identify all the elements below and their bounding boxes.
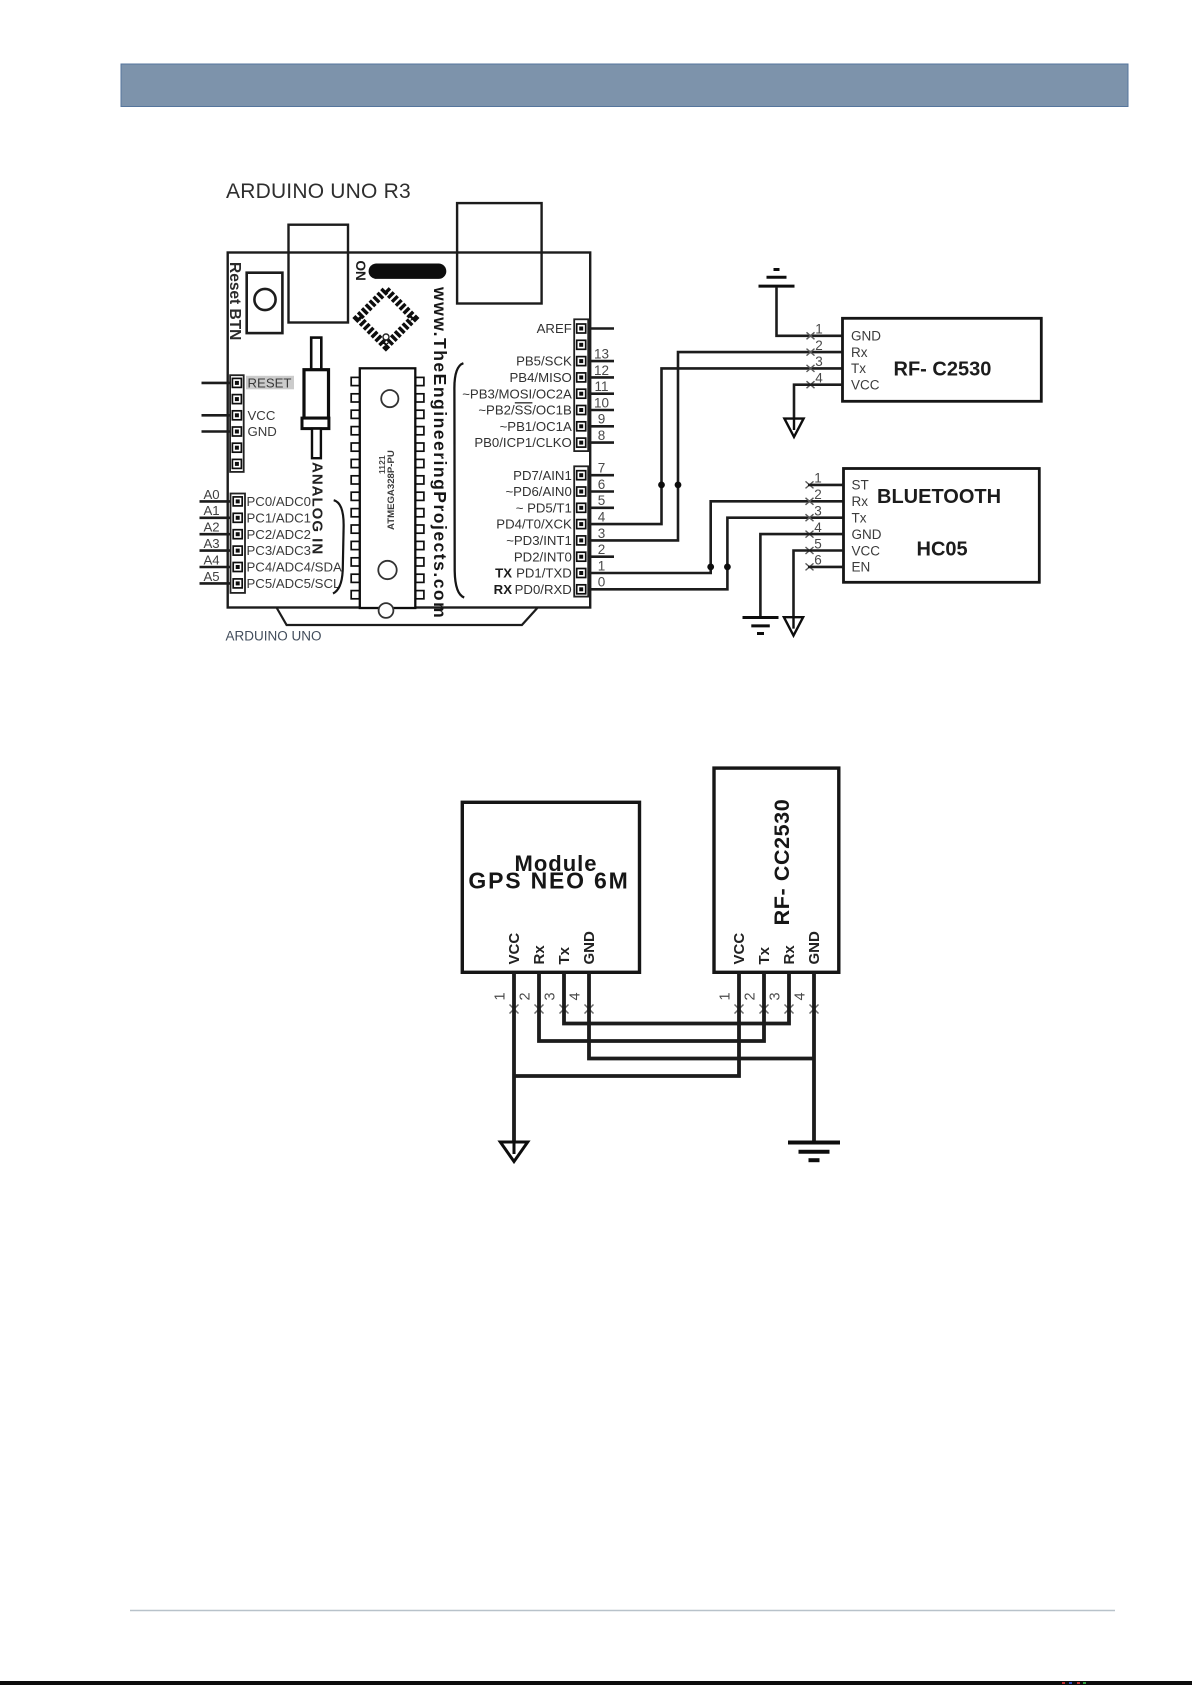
- arduino board outline U1: [228, 253, 591, 608]
- ground (BT GND): [743, 618, 779, 634]
- wire VCC: [202, 414, 231, 417]
- svg-text:Reset BTN: Reset BTN: [226, 262, 243, 340]
- svg-text:4: 4: [814, 520, 822, 535]
- wire stub: [588, 555, 614, 558]
- svg-text:Rx: Rx: [851, 345, 868, 360]
- ground (RF-CC2530 GND): [788, 1143, 840, 1161]
- svg-text:ATMEGA328P-PU: ATMEGA328P-PU: [386, 450, 397, 530]
- brace digital group: [454, 363, 464, 597]
- svg-text:HC05: HC05: [917, 539, 968, 561]
- svg-text:1: 1: [718, 992, 734, 1000]
- wire A2: [200, 533, 231, 536]
- bottom bar pixels: [1062, 1682, 1086, 1684]
- svg-text:GPS NEO 6M: GPS NEO 6M: [468, 868, 629, 894]
- reset button S1: [247, 273, 283, 333]
- analog header J2: [231, 494, 246, 593]
- wire VCC net: [514, 973, 739, 1077]
- wire GND net: [589, 973, 814, 1059]
- svg-text:1: 1: [493, 992, 509, 1000]
- wire GPS Rx to RF Tx: [539, 973, 764, 1042]
- wire TX to BT Rx: [588, 501, 843, 573]
- svg-text:ANALOG IN: ANALOG IN: [309, 462, 326, 555]
- svg-text:Tx: Tx: [851, 361, 866, 376]
- wire GPS VCC down: [512, 973, 516, 1143]
- label RESET: [246, 376, 294, 391]
- wire PD4 to RF Tx: [588, 368, 842, 524]
- VCC arrow (GPS): [500, 1142, 527, 1162]
- wire RX to BT Tx: [588, 518, 843, 590]
- svg-text:AREF: AREF: [537, 321, 572, 336]
- svg-text:13: 13: [594, 347, 609, 362]
- RF2 pin x-mark: [760, 1005, 769, 1014]
- svg-text:PD0/RXD: PD0/RXD: [515, 582, 572, 597]
- svg-text:PC0/ADC0: PC0/ADC0: [247, 494, 312, 509]
- svg-text:VCC: VCC: [851, 378, 880, 393]
- svg-text:PD2/INT0: PD2/INT0: [514, 549, 572, 564]
- LED bar: [369, 264, 447, 279]
- bottom bar: [0, 1681, 1192, 1685]
- svg-text:6: 6: [598, 477, 606, 492]
- junction dot: [675, 482, 682, 489]
- GPS pin x-mark: [585, 1005, 594, 1014]
- module RF-CC2530: [714, 768, 839, 972]
- wire BT GND to ground: [760, 534, 843, 616]
- wire stub: [588, 392, 614, 395]
- wire BT ST stub: [808, 484, 844, 487]
- svg-text:Rx: Rx: [852, 494, 869, 509]
- svg-text:RF- CC2530: RF- CC2530: [770, 799, 794, 926]
- svg-text:GND: GND: [248, 424, 277, 439]
- wire BT EN stub: [808, 566, 844, 569]
- svg-text:4: 4: [568, 992, 584, 1000]
- wire A4: [200, 566, 231, 569]
- svg-text:4: 4: [598, 510, 606, 525]
- svg-text:2: 2: [598, 542, 606, 557]
- svg-text:BLUETOOTH: BLUETOOTH: [877, 486, 1001, 508]
- RF2 pin x-mark: [810, 1005, 819, 1014]
- svg-text:A0: A0: [204, 487, 220, 502]
- wire PD3 to RF Rx: [588, 352, 842, 540]
- svg-text:5: 5: [598, 493, 606, 508]
- svg-text:TX: TX: [495, 566, 512, 581]
- svg-text:ST: ST: [852, 478, 869, 493]
- RF pin x-mark: [807, 332, 815, 339]
- header bar: [121, 64, 1128, 107]
- svg-text:1: 1: [814, 471, 822, 486]
- svg-text:4: 4: [815, 371, 823, 386]
- svg-text:GND: GND: [852, 527, 882, 542]
- power header J1: [230, 375, 244, 472]
- wire stub: [588, 409, 614, 412]
- svg-text:PB4/MISO: PB4/MISO: [510, 370, 572, 385]
- svg-text:EN: EN: [852, 560, 871, 575]
- svg-text:0: 0: [598, 575, 606, 590]
- svg-text:A4: A4: [204, 552, 220, 567]
- svg-text:PB5/SCK: PB5/SCK: [516, 354, 572, 369]
- svg-text:Tx: Tx: [852, 511, 867, 526]
- GPS pin x-mark: [560, 1005, 569, 1014]
- svg-text:www.TheEngineeringProjects.com: www.TheEngineeringProjects.com: [430, 286, 450, 619]
- footer rule: [130, 1610, 1115, 1612]
- svg-text:PD7/AIN1: PD7/AIN1: [513, 468, 572, 483]
- wire stub: [588, 474, 614, 477]
- svg-text:~PB1/OC1A: ~PB1/OC1A: [500, 419, 572, 434]
- module RF-C2530: [843, 318, 1042, 401]
- svg-text:10: 10: [594, 395, 609, 410]
- power connector: [457, 203, 541, 303]
- svg-text:2: 2: [815, 338, 823, 353]
- svg-text:~PD3/INT1: ~PD3/INT1: [506, 533, 572, 548]
- BT pin x-mark: [806, 547, 814, 554]
- svg-text:2: 2: [743, 992, 759, 1000]
- svg-text:VCC: VCC: [731, 933, 748, 965]
- svg-text:3: 3: [598, 526, 606, 541]
- board bottom trapezoid: [277, 608, 538, 625]
- svg-text:8: 8: [598, 428, 606, 443]
- svg-text:GND: GND: [806, 931, 823, 965]
- svg-text:1: 1: [815, 322, 823, 337]
- VCC arrow (RF): [784, 419, 803, 437]
- svg-text:3: 3: [768, 992, 784, 1000]
- svg-text:~PB3/MOSI/OC2A: ~PB3/MOSI/OC2A: [462, 386, 572, 401]
- wire stub: [588, 376, 614, 379]
- svg-text:PC5/ADC5/SCL: PC5/ADC5/SCL: [247, 576, 341, 591]
- svg-text:PC3/ADC3: PC3/ADC3: [247, 543, 312, 558]
- module BLUETOOTH HC05: [844, 469, 1040, 583]
- svg-text:ON: ON: [353, 261, 368, 281]
- VCC arrow (BT): [784, 617, 803, 635]
- svg-text:6: 6: [814, 553, 822, 568]
- svg-text:PC1/ADC1: PC1/ADC1: [247, 510, 312, 525]
- junction dot: [707, 564, 714, 571]
- svg-text:5: 5: [814, 536, 822, 551]
- svg-text:Tx: Tx: [756, 946, 773, 964]
- junction dot: [658, 482, 665, 489]
- svg-text:A1: A1: [204, 503, 220, 518]
- svg-text:4: 4: [793, 992, 809, 1000]
- wire stub: [588, 490, 614, 493]
- GPS pin x-mark: [510, 1005, 519, 1014]
- svg-text:A2: A2: [204, 520, 220, 535]
- wire RF VCC to arrow: [794, 385, 843, 419]
- wire A1: [200, 516, 231, 519]
- svg-text:1: 1: [598, 558, 606, 573]
- wire RESET: [202, 382, 231, 385]
- svg-text:VCC: VCC: [248, 408, 276, 423]
- svg-text:2: 2: [518, 992, 534, 1000]
- RF2 pin x-mark: [785, 1005, 794, 1014]
- svg-text:ARDUINO UNO: ARDUINO UNO: [226, 629, 322, 644]
- svg-text:7: 7: [598, 461, 606, 476]
- GPS pin x-mark: [535, 1005, 544, 1014]
- wire RF GND down: [812, 973, 816, 1142]
- BT pin x-mark: [806, 514, 814, 521]
- overline SS: [515, 402, 533, 404]
- digital header J4 (bottom): [574, 466, 588, 596]
- wire stub: [588, 360, 614, 363]
- svg-text:Rx: Rx: [531, 945, 548, 965]
- svg-text:Tx: Tx: [556, 946, 573, 964]
- svg-text:RF- C2530: RF- C2530: [894, 358, 992, 380]
- svg-text:3: 3: [543, 992, 559, 1000]
- junction dot: [724, 564, 731, 571]
- svg-text:~PB2/SS/OC1B: ~PB2/SS/OC1B: [478, 403, 572, 418]
- svg-text:2: 2: [814, 487, 822, 502]
- wire GND: [202, 430, 231, 433]
- svg-text:VCC: VCC: [506, 933, 523, 965]
- wire stub: [588, 327, 614, 330]
- RF pin x-mark: [807, 365, 815, 372]
- svg-text:A3: A3: [204, 536, 220, 551]
- RF pin x-mark: [807, 349, 815, 356]
- svg-text:GND: GND: [581, 931, 598, 965]
- svg-text:PC2/ADC2: PC2/ADC2: [247, 527, 312, 542]
- resistor R1: [302, 338, 329, 459]
- svg-text:A5: A5: [204, 569, 220, 584]
- module GPS NEO 6M: [462, 802, 639, 972]
- USB connector: [289, 225, 349, 323]
- svg-text:GND: GND: [851, 329, 881, 344]
- svg-text:PC4/ADC4/SDA: PC4/ADC4/SDA: [247, 560, 342, 575]
- wire A5: [200, 582, 231, 585]
- svg-text:9: 9: [598, 412, 606, 427]
- IC ATMEGA328P-PU U2: [351, 368, 424, 618]
- digital header J3 (top): [574, 319, 588, 451]
- svg-text:~ PD5/T1: ~ PD5/T1: [516, 500, 572, 515]
- wire stub: [588, 425, 614, 428]
- wire A0: [200, 500, 231, 503]
- BT pin x-mark: [806, 531, 814, 538]
- svg-text:3: 3: [814, 504, 822, 519]
- svg-text:12: 12: [594, 363, 609, 378]
- svg-text:Rx: Rx: [781, 945, 798, 965]
- svg-text:3: 3: [815, 354, 823, 369]
- svg-text:RESET: RESET: [248, 376, 292, 391]
- svg-text:RX: RX: [494, 582, 513, 597]
- brace analog group: [333, 500, 344, 593]
- ground (RF GND): [759, 270, 795, 287]
- wire ground to RF GND: [777, 287, 843, 336]
- QFP chip (diamond): [358, 290, 414, 346]
- svg-text:~PD6/AIN0: ~PD6/AIN0: [505, 484, 571, 499]
- BT pin x-mark: [806, 498, 814, 505]
- RF pin x-mark: [807, 381, 815, 388]
- BT pin x-mark: [806, 481, 814, 488]
- svg-text:PD1/TXD: PD1/TXD: [516, 566, 572, 581]
- svg-text:VCC: VCC: [852, 543, 881, 558]
- RF2 pin x-mark: [735, 1005, 744, 1014]
- wire A3: [200, 549, 231, 552]
- BT pin x-mark: [806, 563, 814, 570]
- wire stub: [588, 506, 614, 509]
- svg-text:ARDUINO UNO R3: ARDUINO UNO R3: [226, 180, 411, 203]
- svg-text:PD4/T0/XCK: PD4/T0/XCK: [496, 517, 572, 532]
- wire BT VCC to arrow: [794, 551, 844, 618]
- wire GPS Tx to RF Rx: [564, 973, 789, 1024]
- svg-text:11: 11: [594, 379, 608, 394]
- wire stub: [588, 441, 614, 444]
- svg-text:PB0/ICP1/CLKO: PB0/ICP1/CLKO: [474, 435, 571, 450]
